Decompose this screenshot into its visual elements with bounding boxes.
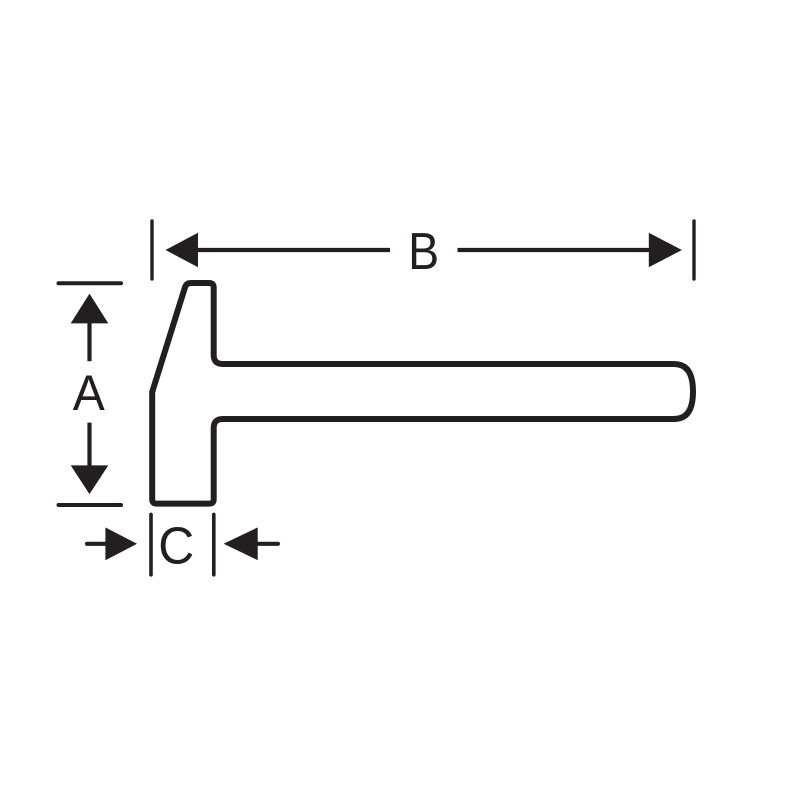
dimension C: left tick (149, 514, 153, 574)
dimension A: top tick (59, 281, 122, 285)
svg-text:A: A (73, 365, 106, 421)
dimension B: left tick (150, 221, 153, 279)
dimension C: right tick (212, 514, 216, 574)
dimension B: left shaft (197, 248, 390, 252)
dimension A: down arrowhead (71, 465, 109, 494)
dimension B: right shaft (458, 248, 651, 252)
dimension C: left arrowhead (105, 527, 137, 560)
hammer outline (152, 283, 693, 504)
dimension B: right arrowhead (649, 233, 682, 268)
dimension C: left stub (87, 542, 107, 546)
dimension C: right arrowhead (224, 527, 258, 560)
dimension B: right tick (692, 221, 695, 279)
dimension A: up arrowhead (71, 294, 109, 324)
dimension B: left arrowhead (166, 233, 199, 268)
dimension C: right stub (256, 542, 278, 546)
svg-text:C: C (158, 518, 194, 576)
dimension A: bottom tick (59, 503, 122, 507)
svg-text:B: B (408, 223, 439, 281)
dimension A: upper shaft (87, 322, 91, 361)
dimension A: lower shaft (87, 423, 91, 466)
